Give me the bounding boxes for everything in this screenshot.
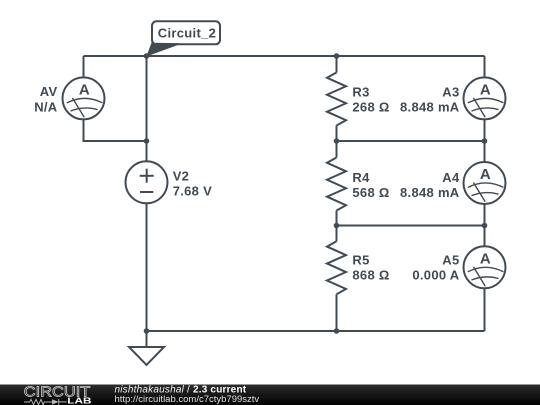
svg-text:http://circuitlab.com/c7ctyb79: http://circuitlab.com/c7ctyb799sztv [115, 394, 260, 405]
svg-text:A3: A3 [442, 84, 459, 99]
svg-text:A: A [480, 81, 491, 98]
svg-text:0.000 A: 0.000 A [412, 268, 459, 283]
svg-text:A: A [79, 81, 90, 98]
svg-text:R4: R4 [352, 170, 370, 185]
svg-text:7.68 V: 7.68 V [173, 184, 212, 199]
svg-text:AV: AV [40, 84, 58, 99]
svg-text:V2: V2 [173, 168, 190, 183]
svg-text:868 Ω: 868 Ω [352, 268, 389, 283]
svg-text:268 Ω: 268 Ω [352, 100, 389, 115]
svg-text:LAB: LAB [67, 395, 91, 405]
svg-text:N/A: N/A [34, 99, 58, 114]
svg-text:A5: A5 [442, 252, 459, 267]
svg-text:A: A [480, 166, 491, 183]
svg-text:R5: R5 [352, 252, 369, 267]
svg-text:A: A [480, 250, 491, 267]
svg-text:568 Ω: 568 Ω [352, 185, 389, 200]
svg-text:Circuit_2: Circuit_2 [158, 25, 216, 40]
svg-text:8.848 mA: 8.848 mA [400, 100, 460, 115]
svg-text:R3: R3 [352, 84, 369, 99]
svg-text:8.848 mA: 8.848 mA [400, 185, 460, 200]
svg-text:A4: A4 [442, 170, 460, 185]
